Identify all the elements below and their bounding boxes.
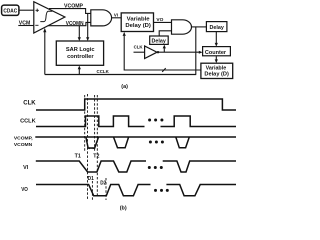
VI ellipsis dots — [148, 166, 163, 169]
svg-text:T1: T1 — [75, 154, 81, 160]
VO waveform — [36, 185, 151, 196]
svg-text:VI: VI — [114, 12, 118, 17]
dashed guide D1 — [91, 181, 93, 200]
wire delay2 to counter — [215, 32, 218, 47]
wire CDAC to comparator plus input — [19, 9, 34, 11]
svg-text:CDAC: CDAC — [3, 8, 17, 14]
comparator clock arrow (CCLK into comparator) — [43, 28, 46, 75]
VCOMP VCOMN waveform top line — [35, 136, 236, 138]
wire counter to variable delay bottom — [215, 56, 218, 63]
AND gate U2 — [91, 10, 112, 26]
dashed guide T2 left — [94, 95, 96, 151]
wire CLK input — [134, 51, 145, 53]
CCLK waveform — [36, 116, 145, 127]
dashed guide T2 right — [96, 95, 98, 197]
svg-text:D2: D2 — [100, 181, 106, 187]
svg-text:CLK: CLK — [134, 45, 144, 50]
wire VCOMP branch to SAR — [86, 13, 89, 41]
VO ellipsis dots — [154, 189, 169, 192]
svg-text:CCLK: CCLK — [97, 69, 109, 74]
svg-text:Delay: Delay — [152, 39, 166, 45]
variable delay block top U4 — [121, 13, 153, 32]
CCLK arrow into SAR bottom — [78, 66, 81, 75]
dashed guide D2 — [105, 178, 107, 200]
counter block U9 — [203, 47, 231, 56]
svg-text:D1: D1 — [88, 176, 94, 182]
D bus wire to variable delay top — [123, 32, 201, 70]
delay block U8 top right — [206, 22, 227, 32]
svg-text:CCLK: CCLK — [20, 118, 36, 124]
dashed timing guide lines — [85, 94, 106, 200]
dashed guide T1 right — [87, 94, 89, 200]
wire AND2 output to delay2 — [192, 26, 207, 28]
dashed guide T1 left — [84, 95, 86, 151]
svg-text:controller: controller — [67, 54, 94, 60]
wire VO — [154, 21, 172, 23]
wire delay to AND lower input — [159, 31, 171, 36]
CDAC block — [2, 5, 19, 15]
AND gate U5 — [172, 20, 192, 34]
VCOMN wire — [48, 22, 91, 25]
wire VCM to comparator minus input — [18, 25, 34, 27]
wire buffer branch to delay block — [163, 45, 166, 53]
wire VCOMN branch to SAR — [78, 26, 81, 41]
svg-text:(a): (a) — [121, 84, 128, 90]
CCLK net wire — [45, 74, 196, 76]
variable delay block bottom U10 — [201, 63, 233, 78]
svg-text:(b): (b) — [120, 205, 127, 211]
CLK buffer U7 — [145, 46, 157, 59]
VI waveform — [36, 161, 146, 172]
junction dot buffer output — [157, 51, 159, 53]
VCOMP ellipsis dots — [149, 141, 164, 144]
svg-text:Delay (D): Delay (D) — [204, 72, 229, 78]
VCOMP wire — [49, 9, 91, 14]
svg-text:CLK: CLK — [23, 100, 36, 107]
VCOMP VCOMN valley 3 — [176, 137, 190, 148]
wire VI — [112, 17, 122, 19]
svg-text:Variable: Variable — [127, 16, 151, 22]
svg-text:SAR Logic: SAR Logic — [66, 47, 95, 53]
VCOMP VCOMN valley 1 — [86, 137, 99, 148]
svg-text:Delay: Delay — [210, 25, 224, 31]
wire buffer to counter — [157, 51, 203, 54]
T1 T2 measure arrow — [88, 147, 95, 149]
svg-text:Variable: Variable — [206, 66, 227, 72]
svg-text:VO: VO — [21, 187, 28, 193]
delay block U6 — [150, 36, 169, 45]
VCOMP VCOMN valley 2 — [114, 137, 129, 148]
svg-text:T2: T2 — [93, 154, 99, 160]
svg-text:VCOMP,: VCOMP, — [14, 135, 33, 141]
svg-text:Counter: Counter — [205, 50, 227, 56]
comparator U1 — [34, 2, 65, 33]
CCLK ellipsis dots — [148, 119, 163, 122]
svg-text:Delay (D): Delay (D) — [125, 23, 151, 29]
bus slash — [162, 68, 166, 72]
CLK waveform — [36, 99, 236, 110]
SAR logic controller U11 — [56, 41, 103, 65]
CCLK junction vertical from AND2 output — [195, 27, 197, 75]
svg-text:VCOMN: VCOMN — [14, 142, 33, 148]
svg-text:VI: VI — [23, 165, 29, 171]
